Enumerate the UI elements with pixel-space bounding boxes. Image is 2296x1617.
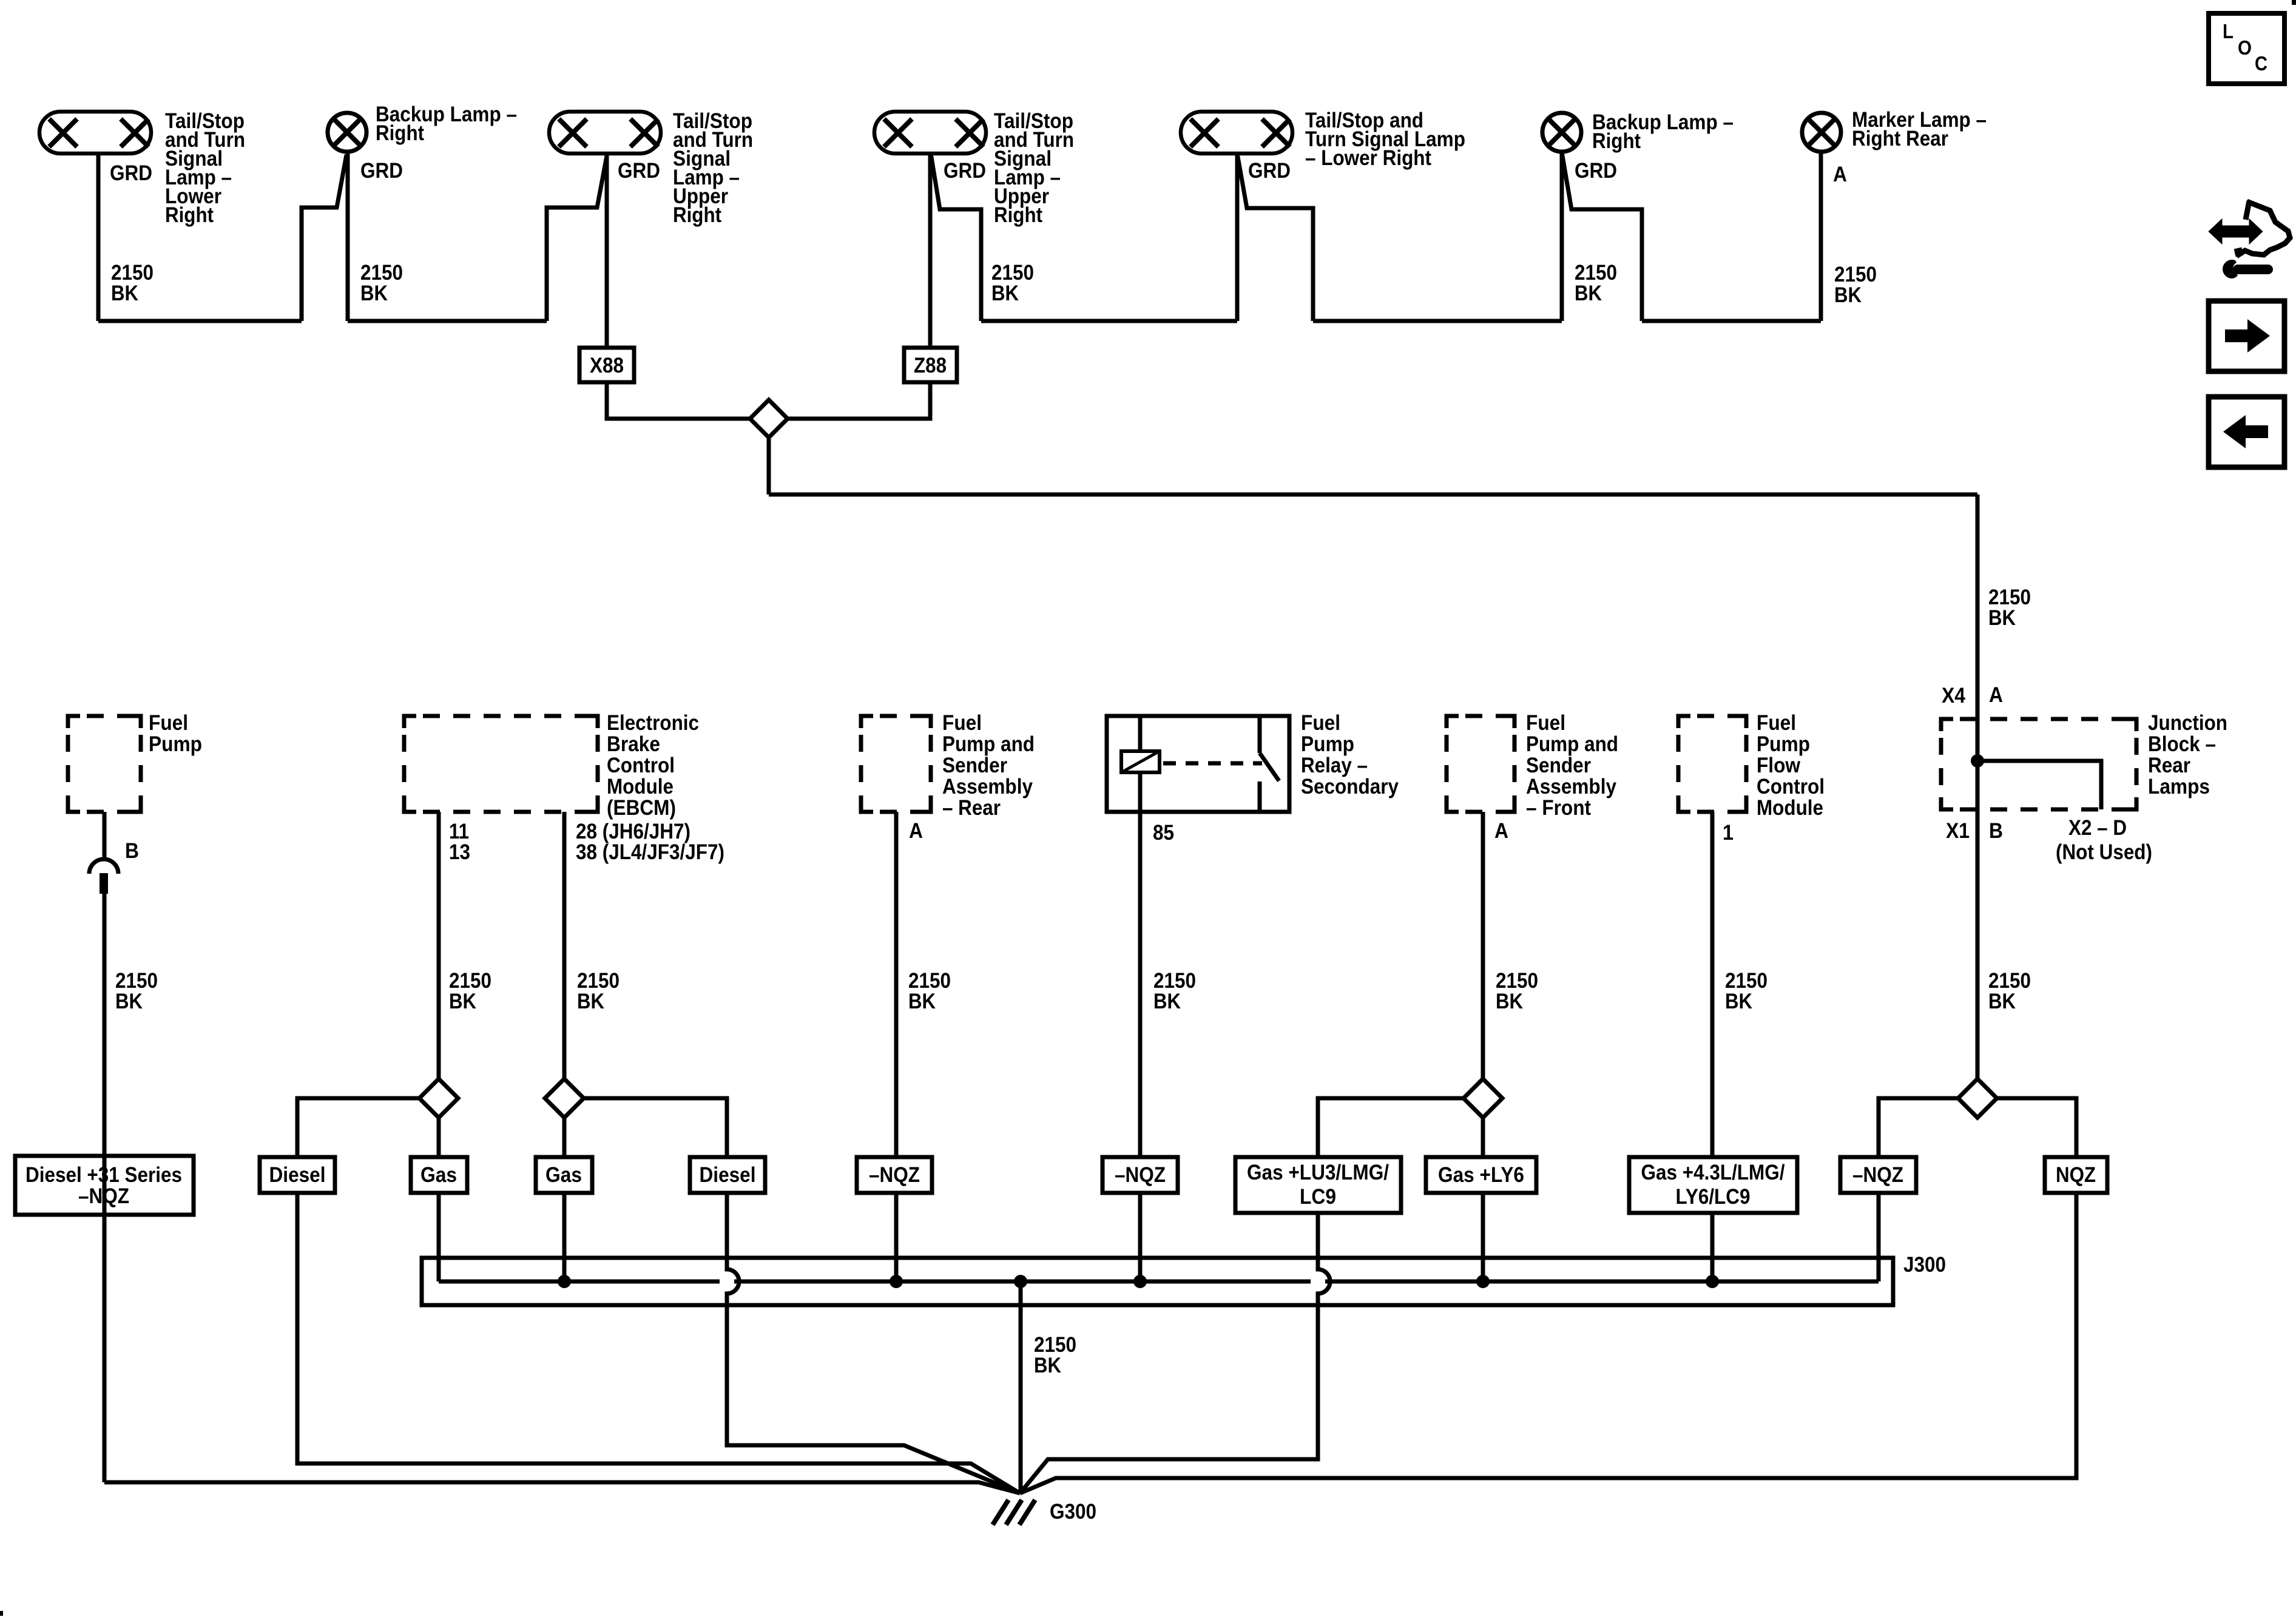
svg-text:Assembly: Assembly	[942, 775, 1033, 798]
wire -NQZ 2 down to splice bus	[1138, 1193, 1143, 1281]
svg-text:LC9: LC9	[1300, 1185, 1336, 1209]
svg-text:O: O	[2238, 36, 2252, 59]
wire flow module pin 1 down	[1710, 812, 1715, 1157]
value box Gas +LU3/LMG/LC9	[1235, 1157, 1401, 1213]
icon diagnostic tool (double arrow, part outline, wrench)	[2210, 222, 2261, 241]
splice diamond S4	[1958, 1079, 1997, 1118]
svg-text:Diesel: Diesel	[700, 1163, 756, 1187]
svg-text:BK: BK	[1725, 990, 1752, 1013]
wire junction block X1-B down	[1976, 809, 1980, 1079]
wire junction block to X2 stub	[1977, 761, 2101, 809]
value box Gas (first)	[411, 1157, 467, 1193]
junction dot -NQZ 2	[1133, 1275, 1147, 1288]
svg-text:Sender: Sender	[1526, 754, 1591, 777]
svg-text:–NQZ: –NQZ	[78, 1184, 129, 1208]
junction dot ground feed	[1014, 1275, 1027, 1288]
svg-text:Relay –: Relay –	[1301, 754, 1368, 777]
svg-text:BK: BK	[1834, 283, 1862, 307]
wire E5 to E6 horizontal	[1313, 319, 1562, 323]
svg-text:J300: J300	[1903, 1253, 1946, 1277]
svg-text:GRD: GRD	[618, 159, 660, 183]
wire riser to lamp E3	[547, 156, 607, 321]
value box Gas +4.3L/LMG/LY6/LC9	[1629, 1157, 1797, 1213]
inline connector (fuel pump pigtail)	[89, 859, 118, 874]
wire front sender pin A down	[1481, 812, 1485, 1079]
svg-text:Diesel: Diesel	[269, 1163, 326, 1187]
svg-text:BK: BK	[1575, 282, 1602, 305]
wire NQZ down to ground	[1020, 1193, 2076, 1493]
wire EBCM pin 28/38 down	[562, 812, 567, 1079]
svg-text:– Lower Right: – Lower Right	[1305, 146, 1431, 170]
wire splice S1 down to Gas box	[437, 1118, 441, 1157]
junction dot Gas 2	[558, 1275, 571, 1288]
svg-text:BK: BK	[111, 282, 138, 305]
value box Gas +LY6	[1426, 1157, 1536, 1193]
wire splice S3 down to Gas +LY6 box	[1481, 1118, 1485, 1157]
svg-text:85: 85	[1153, 821, 1174, 845]
component Electronic Brake Control Module EBCM (dashed box)	[404, 716, 598, 812]
relay switch blade	[1260, 753, 1279, 781]
wire E6 chain out	[1562, 152, 1642, 321]
wire rear sender pin A down	[894, 812, 899, 1157]
svg-text:GRD: GRD	[944, 159, 986, 183]
lamp E1 Tail/Stop and Turn Signal Lamp - Lower Right (dual bulb)	[39, 112, 151, 154]
svg-text:Pump: Pump	[149, 732, 202, 756]
svg-text:NQZ: NQZ	[2056, 1163, 2096, 1187]
wire fuel pump ground run down	[103, 894, 107, 1482]
svg-text:A: A	[909, 819, 923, 843]
svg-text:BK: BK	[577, 990, 604, 1013]
relay coil	[1121, 751, 1160, 772]
svg-text:Rear: Rear	[2148, 754, 2190, 777]
svg-text:Module: Module	[607, 775, 674, 798]
svg-text:Diesel +31 Series: Diesel +31 Series	[25, 1163, 182, 1187]
svg-text:Sender: Sender	[942, 754, 1007, 777]
svg-text:Right Rear: Right Rear	[1852, 127, 1948, 150]
component Fuel Pump Flow Control Module (dashed box)	[1678, 716, 1746, 812]
wire splice S3 left branch to Gas +LU3 box	[1318, 1098, 1464, 1157]
wire splice S2 down to Gas box	[562, 1118, 567, 1157]
svg-text:Brake: Brake	[607, 732, 660, 756]
svg-text:– Front: – Front	[1526, 796, 1591, 820]
svg-text:Assembly: Assembly	[1526, 775, 1616, 798]
component Fuel Pump and Sender Assembly - Front (dashed box)	[1447, 716, 1514, 812]
svg-text:Pump: Pump	[1301, 732, 1354, 756]
splice diamond S3	[1464, 1079, 1502, 1118]
value box Diesel +31 Series -NQZ	[15, 1156, 194, 1215]
svg-text:(Not Used): (Not Used)	[2056, 840, 2152, 864]
wire E1 GRD down	[96, 154, 101, 321]
wire E1 to E2 horizontal	[98, 319, 302, 323]
svg-text:Fuel: Fuel	[1526, 711, 1565, 735]
svg-text:Control: Control	[1757, 775, 1825, 798]
wire E5 chain out	[1237, 154, 1313, 321]
wire splice S2 right branch to Diesel box	[584, 1098, 727, 1157]
svg-text:Right: Right	[165, 203, 214, 227]
wire Gas 1 down to splice bus	[437, 1193, 441, 1281]
svg-text:Gas +4.3L/LMG/: Gas +4.3L/LMG/	[1641, 1161, 1785, 1184]
junction block internal tap dot	[1971, 754, 1984, 768]
relay switch fixed contact	[1258, 716, 1262, 753]
svg-text:–NQZ: –NQZ	[1115, 1163, 1166, 1187]
svg-text:–NQZ: –NQZ	[1852, 1163, 1903, 1187]
wire -NQZ 3 down to splice bus end	[1877, 1193, 1881, 1281]
svg-text:X1: X1	[1946, 819, 1970, 843]
relay switch lower contact	[1258, 781, 1262, 812]
svg-text:Control: Control	[607, 754, 675, 777]
relay coil wire top	[1138, 716, 1143, 751]
wire splice down	[767, 437, 771, 495]
svg-text:X2 – D: X2 – D	[2068, 816, 2127, 840]
wire Gas +LY6 down to splice bus	[1481, 1193, 1485, 1281]
svg-text:Pump and: Pump and	[942, 732, 1035, 756]
splice diamond (rear lamps ground)	[750, 400, 788, 437]
lamp E4 Tail/Stop and Turn Signal Lamp - Upper Right (dual bulb)	[874, 112, 986, 154]
svg-text:38 (JL4/JF3/JF7): 38 (JL4/JF3/JF7)	[576, 840, 724, 864]
svg-text:GRD: GRD	[360, 159, 403, 183]
svg-text:(EBCM): (EBCM)	[607, 796, 676, 820]
wire E2 to E3 horizontal	[348, 319, 547, 323]
wire Gas +4.3L down to splice bus	[1710, 1213, 1715, 1281]
svg-text:Electronic: Electronic	[607, 711, 699, 735]
svg-text:1: 1	[1723, 821, 1734, 845]
value box Gas (second)	[536, 1157, 592, 1193]
junction dot -NQZ 1	[890, 1275, 903, 1288]
svg-text:Right: Right	[376, 121, 424, 145]
splice diamond S2	[545, 1079, 584, 1118]
wire far-left to ground G300	[104, 1482, 1020, 1493]
icon forward arrow box	[2209, 301, 2284, 371]
svg-text:Secondary: Secondary	[1301, 775, 1399, 798]
wire E5 GRD down	[1235, 154, 1240, 321]
svg-text:Fuel: Fuel	[149, 711, 188, 735]
svg-text:BK: BK	[991, 282, 1019, 305]
icon back arrow box	[2209, 397, 2284, 467]
page mark top right	[2292, 0, 2296, 5]
wire E4 chain out	[931, 154, 981, 321]
value box -NQZ (third)	[1840, 1157, 1916, 1193]
svg-text:Gas: Gas	[545, 1163, 582, 1187]
value box -NQZ (second)	[1102, 1157, 1178, 1193]
wire Z88 to splice	[780, 382, 930, 419]
wire -NQZ 1 down to splice bus	[894, 1193, 899, 1281]
connector J300 loop	[422, 1258, 1893, 1305]
svg-text:Fuel: Fuel	[1301, 711, 1340, 735]
svg-text:– Rear: – Rear	[942, 796, 1001, 820]
connector Z88	[904, 348, 957, 382]
wire E7 pin A down	[1819, 152, 1823, 321]
svg-text:Flow: Flow	[1757, 754, 1801, 777]
svg-text:Gas: Gas	[420, 1163, 457, 1187]
svg-text:BK: BK	[449, 990, 476, 1013]
junction dot Gas +LY6	[1476, 1275, 1490, 1288]
wire ground feed down	[1019, 1281, 1023, 1493]
junction dot Gas +4.3L	[1706, 1275, 1719, 1288]
wire fuel pump pin B down	[103, 812, 107, 859]
wire X88 to splice	[607, 382, 757, 419]
svg-text:Fuel: Fuel	[1757, 711, 1796, 735]
svg-text:A: A	[1989, 683, 2003, 707]
value box Diesel (first)	[260, 1157, 335, 1193]
wire EBCM pin 11/13 down	[437, 812, 441, 1079]
wire down to junction block X4	[1976, 495, 1980, 719]
relay coil wire bottom	[1138, 772, 1143, 812]
lamp E6 Backup Lamp - Right (bulb)	[1542, 113, 1581, 152]
svg-text:Pump and: Pump and	[1526, 732, 1618, 756]
svg-text:Pump: Pump	[1757, 732, 1810, 756]
wire splice S4 left branch to -NQZ box	[1879, 1098, 1958, 1157]
svg-text:Fuel: Fuel	[942, 711, 982, 735]
svg-text:L: L	[2223, 20, 2234, 42]
svg-text:BK: BK	[1153, 990, 1181, 1013]
svg-text:Gas +LY6: Gas +LY6	[1438, 1163, 1524, 1187]
wire E3 GRD down to X88	[605, 154, 609, 348]
svg-text:13: 13	[449, 840, 470, 864]
svg-text:Gas +LU3/LMG/: Gas +LU3/LMG/	[1247, 1161, 1389, 1184]
svg-text:Right: Right	[994, 203, 1042, 227]
svg-text:GRD: GRD	[1575, 159, 1617, 183]
lamp E2 Backup Lamp - Right (bulb)	[328, 113, 366, 152]
wire junction block internal	[1976, 719, 1980, 809]
svg-text:BK: BK	[115, 990, 143, 1013]
lamp E5 Tail/Stop and Turn Signal Lamp - Lower Right (dual bulb)	[1181, 112, 1292, 154]
svg-text:GRD: GRD	[1248, 159, 1291, 183]
svg-text:X4: X4	[1942, 684, 1965, 707]
wire Gas +LU3 down to ground (hops bus)	[1020, 1213, 1330, 1493]
svg-text:X88: X88	[590, 354, 624, 377]
svg-text:Right: Right	[673, 203, 721, 227]
svg-text:LY6/LC9: LY6/LC9	[1676, 1185, 1751, 1209]
svg-text:BK: BK	[1988, 990, 2016, 1013]
lamp E7 Marker Lamp - Right Rear (bulb)	[1802, 113, 1841, 152]
wire Gas 2 down to splice bus	[562, 1193, 567, 1281]
svg-text:BK: BK	[1496, 990, 1523, 1013]
lamp E3 Tail/Stop and Turn Signal Lamp - Upper Right (dual bulb)	[549, 112, 661, 154]
wire E2 GRD down	[346, 152, 350, 321]
svg-text:A: A	[1494, 819, 1508, 843]
splice diamond S1	[419, 1079, 458, 1118]
value box NQZ	[2045, 1157, 2107, 1193]
wire splice S4 right branch to NQZ box	[1997, 1098, 2076, 1157]
svg-text:Module: Module	[1757, 796, 1823, 820]
component Fuel Pump Relay - Secondary (box)	[1107, 716, 1289, 812]
svg-text:BK: BK	[908, 990, 936, 1013]
wire relay pin 85 down	[1138, 812, 1143, 1157]
svg-text:BK: BK	[1988, 606, 2016, 630]
svg-text:C: C	[2255, 52, 2267, 75]
ground G300 symbol	[993, 1500, 1035, 1525]
page mark bottom left	[0, 1611, 3, 1616]
svg-text:Z88: Z88	[914, 354, 947, 377]
svg-text:BK: BK	[360, 282, 388, 305]
svg-text:GRD: GRD	[110, 161, 152, 185]
component Junction Block - Rear Lamps (dashed box)	[1941, 719, 2136, 809]
wire splice bus (middle)	[439, 1280, 1879, 1284]
icon LOC box	[2209, 13, 2284, 84]
svg-text:Block –: Block –	[2148, 732, 2216, 756]
connector X88	[579, 348, 634, 382]
wire splice to junction block (long horizontal)	[769, 493, 1977, 497]
component Fuel Pump (dashed box)	[68, 716, 141, 812]
wire splice S1 left branch to Diesel box	[297, 1098, 422, 1157]
svg-text:G300: G300	[1050, 1500, 1096, 1524]
svg-text:BK: BK	[1034, 1354, 1061, 1377]
relay actuating dashed link	[1163, 761, 1262, 766]
value box Diesel (second)	[690, 1157, 765, 1193]
svg-text:Right: Right	[1592, 129, 1641, 153]
wire E6 to E7 horizontal	[1642, 319, 1821, 323]
wire Z88 up to lamp E4	[928, 154, 933, 348]
svg-text:Junction: Junction	[2148, 711, 2227, 735]
svg-text:–NQZ: –NQZ	[869, 1163, 920, 1187]
wire riser to lamp E2	[302, 155, 346, 321]
component Fuel Pump and Sender Assembly - Rear (dashed box)	[861, 716, 931, 812]
wire Diesel 1 down to ground	[297, 1193, 1020, 1493]
wire E6 GRD down	[1560, 152, 1564, 321]
value box -NQZ (first)	[857, 1157, 932, 1193]
svg-text:Lamps: Lamps	[2148, 775, 2210, 798]
svg-text:A: A	[1833, 163, 1847, 186]
wire Diesel 2 down to ground (hops bus)	[727, 1193, 1020, 1493]
svg-text:B: B	[125, 839, 139, 863]
svg-text:B: B	[1989, 819, 2003, 843]
wire E4 to E5 horizontal	[981, 319, 1237, 323]
